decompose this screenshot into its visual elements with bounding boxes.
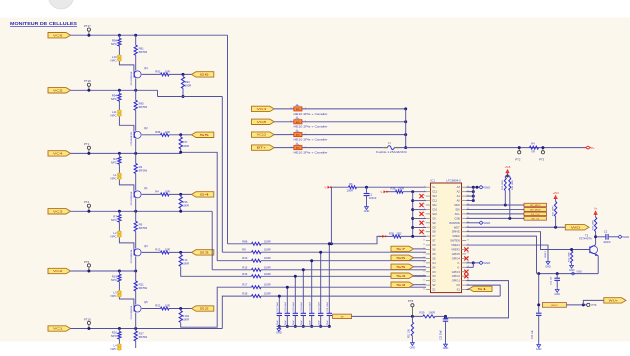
svg-text:ISP_MISO: ISP_MISO [530, 205, 541, 207]
wire from jumper [302, 147, 383, 149]
wire to output connector [169, 308, 192, 310]
capacitor C33 20nF [443, 318, 448, 320]
wire from jumper [302, 108, 406, 110]
wire to base [119, 238, 133, 250]
svg-text:STS25DNF30L: STS25DNF30L [131, 70, 133, 85]
wire to jumper J5 [274, 134, 294, 136]
svg-text:C31 1uF: C31 1uF [551, 276, 553, 285]
svg-text:ISP_MOSI: ISP_MOSI [530, 210, 541, 212]
svg-text:S6: S6 [396, 256, 407, 260]
svg-text:20nF: 20nF [327, 320, 329, 326]
svg-text:R22: R22 [155, 304, 161, 308]
svg-text:ADD: ADD [296, 108, 301, 111]
wire ISOMOD to ground flag [466, 222, 478, 224]
svg-text:GND: GND [545, 266, 551, 269]
svg-text:6: 6 [424, 208, 425, 210]
svg-text:R34 100R: R34 100R [512, 180, 514, 190]
wire V+ node [331, 186, 348, 188]
svg-text:PT2: PT2 [515, 157, 521, 161]
svg-text:Q5: Q5 [144, 300, 148, 304]
connector VC4 (cell tap input) [48, 151, 71, 156]
svg-text:10R: 10R [165, 304, 170, 308]
capacitor C23 20nF [311, 312, 313, 315]
svg-text:NPC: NPC [111, 97, 117, 101]
wire cap stub 2 [320, 252, 322, 312]
wire GPIO1 loop to C33 node [446, 281, 509, 318]
ground below R25 [571, 263, 573, 265]
svg-text:S10: S10 [432, 212, 437, 216]
svg-text:R4: R4 [155, 190, 159, 194]
wire cap stub 5 [294, 276, 296, 312]
resistor R92 10R [161, 73, 170, 76]
wire SDO line [466, 204, 524, 206]
svg-text:C1: C1 [369, 192, 373, 196]
test point PT1 [87, 146, 90, 149]
svg-text:STS25DNF30L: STS25DNF30L [131, 248, 133, 263]
wire C11 stub [413, 200, 426, 202]
svg-text:VC5: VC5 [53, 88, 64, 92]
svg-text:FZT449TA: FZT449TA [579, 237, 592, 241]
wire row VC1 [71, 328, 223, 330]
resistor R3 5R/5W on rail [135, 153, 137, 163]
svg-text:18: 18 [423, 262, 425, 264]
resistor R36 100R [595, 216, 597, 217]
svg-text:C7: C7 [432, 234, 436, 238]
svg-text:GND: GND [623, 235, 629, 239]
wire from jumper [302, 134, 406, 136]
svg-text:VC2: VC2 [53, 269, 64, 273]
svg-text:4: 4 [424, 199, 425, 201]
wire fuse to P+ [399, 147, 586, 149]
svg-text:PT1: PT1 [84, 142, 90, 146]
capacitor C26 20nF [286, 312, 288, 315]
wire C10 stub [413, 209, 426, 211]
svg-text:PT17: PT17 [84, 24, 91, 28]
svg-text:GPIO2: GPIO2 [452, 274, 461, 278]
resistor R34 100R pullup [509, 176, 511, 178]
wire div1 to bus [158, 96, 223, 98]
svg-text:S9: S9 [432, 221, 436, 225]
inductor L3 NPC [118, 291, 122, 295]
wire VREG pin to rail [466, 236, 536, 273]
svg-text:36: 36 [467, 239, 469, 241]
net label IW [333, 314, 352, 319]
wire to jumper J4 [274, 121, 294, 123]
resistor R4 10R [161, 193, 170, 196]
svg-text:100R: 100R [264, 272, 271, 276]
svg-text:ISP_CS: ISP_CS [531, 218, 539, 220]
svg-text:C2: C2 [604, 230, 608, 234]
capacitor C31 1uF [556, 272, 559, 275]
resistor R4 0R [530, 146, 539, 149]
wire to jumper J3 [274, 108, 294, 110]
svg-text:T3: T3 [585, 233, 589, 237]
resistor R15 100R [212, 269, 251, 271]
svg-text:VC4: VC4 [53, 152, 64, 156]
net label WKUP [542, 303, 566, 308]
power flag V- feeding R38 [384, 190, 387, 193]
capacitor C25 20nF [294, 312, 296, 315]
junction node row 1 [87, 34, 90, 37]
wire row VC5 [71, 89, 158, 91]
svg-text:20nF: 20nF [293, 320, 295, 326]
connector WD arrow [565, 225, 589, 230]
svg-text:GND: GND [484, 221, 490, 225]
no-connect X marks on right pins [464, 247, 468, 251]
svg-text:100R: 100R [347, 189, 353, 193]
svg-text:100R: 100R [182, 203, 189, 207]
wire row2 step [157, 90, 159, 96]
IC1 pin stubs and labels [426, 186, 431, 188]
svg-text:24: 24 [423, 288, 425, 290]
svg-text:Q1: Q1 [144, 186, 148, 190]
svg-text:MONITEUR DE CELLULES: MONITEUR DE CELLULES [10, 21, 77, 26]
wire divider2 bottom to bus [181, 149, 218, 261]
resistor R10 100R [217, 260, 251, 262]
resistor R33 100R pullup [504, 176, 506, 178]
svg-text:V-: V- [379, 235, 382, 239]
svg-text:S11: S11 [432, 203, 437, 207]
power flag V- feeding R6 [328, 186, 331, 189]
svg-text:100R: 100R [264, 239, 271, 243]
svg-text:PT4: PT4 [84, 200, 90, 204]
wire R18 row to C0 loop [261, 295, 500, 297]
svg-text:PT19: PT19 [84, 317, 91, 321]
svg-text:A0: A0 [457, 199, 461, 203]
svg-text:R31 10K: R31 10K [408, 329, 410, 338]
transistor Q5 STS25DNF30L [134, 305, 141, 312]
wire R9 row to IC [261, 251, 426, 253]
svg-text:GND: GND [577, 270, 583, 273]
svg-text:S12: S12 [432, 194, 437, 198]
connector WU+ [604, 298, 626, 303]
wire [118, 282, 120, 291]
net label ISP_CS [524, 217, 547, 221]
connector VC5 (cell tap input) [48, 88, 71, 93]
svg-text:Q3: Q3 [144, 244, 148, 248]
capacitor C27 20nF [278, 312, 280, 315]
svg-text:V-: V- [324, 185, 327, 189]
svg-text:20nF: 20nF [285, 320, 287, 326]
svg-text:100R: 100R [182, 144, 189, 148]
svg-text:C26 20nF: C26 20nF [285, 301, 287, 311]
resistor R104 100R divider [180, 309, 182, 311]
svg-text:C5: C5 [432, 252, 436, 256]
svg-text:C23 20nF: C23 20nF [310, 301, 312, 311]
wire [118, 222, 120, 231]
net label ISP_MISO [524, 203, 547, 207]
test point PT5 [87, 264, 90, 267]
wire to base [119, 297, 133, 305]
wire R16 row to IC [261, 275, 426, 277]
power flag +5x5 [506, 170, 509, 175]
svg-text:SDI: SDI [455, 207, 460, 211]
wire divider1 bottom [182, 88, 184, 96]
wire SCL line [466, 213, 524, 215]
svg-text:ISOMOD: ISOMOD [449, 221, 460, 225]
wire R10 row to IC [261, 260, 426, 262]
svg-text:R16: R16 [242, 272, 248, 276]
resistor R16 100R [250, 275, 253, 277]
partial cell 6 resistor R27 5R/5W [135, 329, 137, 332]
rail wire [135, 291, 137, 305]
svg-text:VREF1: VREF1 [545, 250, 547, 258]
svg-text:VC4: VC4 [257, 107, 268, 111]
svg-text:LTC6804-2: LTC6804-2 [447, 179, 462, 183]
test point PT9 [587, 303, 590, 306]
svg-text:10R: 10R [165, 190, 170, 194]
svg-text:GPIO1: GPIO1 [452, 279, 461, 283]
ground flag A3 [479, 186, 483, 189]
svg-text:2: 2 [424, 190, 425, 192]
svg-text:V-: V- [457, 265, 460, 269]
svg-text:GPIO5: GPIO5 [452, 252, 461, 256]
inductor L10 NPC [118, 55, 122, 59]
svg-text:HE10 2Pts + Cavalier: HE10 2Pts + Cavalier [294, 125, 328, 129]
ground below C31 [556, 287, 558, 289]
svg-text:NPC: NPC [110, 177, 116, 181]
svg-text:20nF: 20nF [277, 320, 279, 326]
junction node row 4 [87, 210, 90, 213]
svg-text:VREG: VREG [452, 234, 459, 238]
inductor L2 NPC [118, 231, 122, 235]
transistor Q2 STS25DNF30L [134, 131, 141, 138]
svg-text:WDT: WDT [454, 225, 460, 229]
svg-text:NPC: NPC [110, 234, 116, 238]
resistor R2 NPC [118, 153, 120, 156]
svg-text:5: 5 [424, 204, 425, 206]
input connector S3 [391, 282, 414, 287]
resistor R93 100R divider [182, 74, 184, 76]
wire C12-C8 vertical tie [412, 192, 414, 237]
svg-text:NPC: NPC [111, 334, 117, 338]
partial cell 6 inductor L4 NPC [118, 339, 120, 344]
resistor R17 100R [250, 286, 253, 288]
svg-text:8: 8 [424, 217, 425, 219]
svg-text:S7: S7 [396, 247, 407, 251]
wire R88 row to C7 with R30 [261, 236, 388, 243]
svg-text:R38: R38 [391, 187, 396, 191]
connector VC12 [252, 132, 275, 137]
svg-text:R30: R30 [389, 231, 394, 235]
svg-text:GND: GND [554, 293, 560, 296]
svg-text:16: 16 [423, 253, 425, 255]
test point PT2 [518, 146, 521, 149]
svg-text:Q4: Q4 [144, 66, 148, 70]
svg-text:S1: S1 [477, 287, 488, 291]
svg-text:WKUP: WKUP [551, 305, 558, 307]
svg-text:PT5: PT5 [84, 260, 90, 264]
svg-text:A3: A3 [457, 185, 461, 189]
svg-text:S5: S5 [199, 133, 210, 137]
test point PT17 [87, 28, 90, 31]
svg-text:VC3: VC3 [53, 209, 64, 213]
svg-text:GND: GND [536, 348, 542, 351]
svg-text:5R/5W: 5R/5W [139, 226, 148, 230]
resistor R6 100R [349, 186, 357, 189]
svg-text:A1: A1 [457, 194, 461, 198]
svg-text:GND: GND [443, 347, 449, 350]
wire WKUP to PT9 [567, 304, 587, 306]
svg-text:10R: 10R [165, 70, 170, 74]
wire divider4 bottom to R16 row [181, 267, 251, 276]
svg-text:S7: S7 [432, 239, 436, 243]
svg-text:PT8: PT8 [408, 299, 414, 303]
test point PT18 [87, 83, 90, 86]
svg-text:5R/5W: 5R/5W [139, 335, 148, 339]
svg-text:R98: R98 [155, 130, 161, 134]
svg-text:NPC: NPC [111, 218, 117, 222]
rail wire [135, 55, 137, 70]
wire cap stub 4 [302, 270, 304, 313]
test point PT3 [541, 146, 544, 149]
svg-text:5R/5W: 5R/5W [139, 286, 148, 290]
resistor R19 NPC [118, 271, 120, 274]
svg-text:2R2: 2R2 [397, 231, 402, 235]
svg-text:NPC: NPC [110, 347, 116, 351]
svg-text:C33 20nF: C33 20nF [441, 329, 443, 340]
capacitor C22 20nF [320, 312, 322, 315]
svg-text:10: 10 [423, 226, 425, 228]
wire to output connector [169, 134, 192, 136]
wire SDI line [466, 208, 524, 210]
emitter output wire [142, 308, 161, 310]
resistor R94 NPC [118, 90, 120, 93]
svg-text:R33 100R: R33 100R [502, 180, 504, 190]
wire divider5 bottom to R17 row [181, 287, 251, 327]
svg-text:VREF1: VREF1 [451, 243, 460, 247]
svg-text:R6: R6 [349, 182, 353, 186]
svg-text:R36 100R: R36 100R [593, 220, 595, 230]
resistor R9 5R/5W on rail [135, 211, 137, 221]
inductor L11 NPC [118, 110, 122, 114]
test point PT8 [411, 304, 414, 307]
wire [118, 164, 120, 173]
svg-text:13: 13 [423, 239, 425, 241]
resistor R7 NPC [118, 211, 120, 214]
svg-text:PT3: PT3 [539, 157, 545, 161]
svg-text:A2: A2 [457, 190, 461, 194]
resistor R98 10R [161, 133, 170, 136]
resistor R95 5R/5W on rail [135, 90, 137, 100]
svg-text:100nF: 100nF [369, 196, 377, 200]
ground bus under capacitors [277, 325, 330, 327]
svg-text:R10: R10 [242, 256, 248, 260]
output connector S3 [192, 250, 214, 255]
input connector S6 [391, 255, 414, 260]
wire row VC2 [71, 270, 136, 272]
svg-text:22: 22 [423, 279, 425, 281]
input connector S4 [391, 273, 414, 278]
svg-text:STS25DNF30L: STS25DNF30L [131, 305, 133, 320]
svg-text:7: 7 [424, 213, 425, 215]
svg-text:V-: V- [457, 261, 460, 265]
svg-text:V-: V- [380, 190, 383, 194]
wire to output connector [169, 193, 192, 195]
wire cap stub 7 [278, 296, 280, 313]
ground flag right of C2 [618, 235, 622, 238]
svg-text:14: 14 [423, 244, 425, 246]
svg-text:100R: 100R [264, 248, 271, 252]
wire row1 bus down [227, 35, 229, 244]
svg-text:100R: 100R [264, 292, 271, 296]
resistor R91 5R/5W on rail [135, 35, 137, 45]
svg-text:V+: V+ [594, 207, 598, 211]
rail wire [135, 110, 137, 131]
ground flag on emitter line [571, 272, 575, 275]
output connector S1 [469, 286, 492, 291]
svg-text:GND: GND [276, 332, 282, 335]
capacitor C24 20nF [302, 312, 304, 315]
wire R29 to C33 node [435, 315, 446, 317]
svg-text:S4: S4 [396, 274, 407, 278]
svg-text:100R: 100R [264, 256, 271, 260]
svg-text:100R: 100R [182, 261, 189, 265]
net label ISP_MOSI [524, 208, 547, 212]
svg-text:HE10 2Pts + Cavalier: HE10 2Pts + Cavalier [294, 112, 328, 116]
no-connect X marks on left S pins [419, 194, 423, 198]
svg-text:20nF: 20nF [310, 320, 312, 326]
svg-text:R9: R9 [242, 248, 246, 252]
svg-text:10R: 10R [165, 248, 170, 252]
capacitor C2 100nF [596, 236, 606, 238]
resistor R25 100R [570, 251, 572, 263]
connector VC4 [252, 106, 275, 111]
svg-text:S2: S2 [199, 307, 210, 311]
svg-text:GND: GND [484, 261, 490, 265]
svg-text:PT9: PT9 [592, 303, 597, 307]
svg-text:C8: C8 [432, 225, 436, 229]
svg-text:VC6: VC6 [53, 33, 64, 37]
emitter output wire [142, 251, 161, 253]
wire to output connector [169, 251, 192, 253]
ground flag ISOMOD [479, 221, 483, 224]
svg-text:C27 20nF: C27 20nF [277, 301, 279, 311]
svg-text:100R: 100R [264, 283, 271, 287]
svg-text:S4: S4 [432, 265, 436, 269]
wire jumper bus [405, 109, 407, 148]
wire C8 stub [413, 227, 426, 229]
connector VC8 [252, 119, 275, 124]
wire row VC6 [71, 34, 228, 36]
svg-text:5R/5W: 5R/5W [139, 168, 148, 172]
resistor R31 10K [411, 322, 413, 336]
svg-text:VC8: VC8 [257, 120, 268, 124]
resistor R21 5R/5W on rail [135, 271, 137, 281]
wire VREG rail down to WKUP node [538, 274, 540, 313]
svg-text:Fusible 1.25A/2kVDC: Fusible 1.25A/2kVDC [376, 150, 407, 154]
output connector S2 [192, 306, 214, 311]
partial cell 6 resistor R20 NPC [118, 329, 120, 332]
svg-text:C30 1uF: C30 1uF [532, 330, 534, 339]
svg-text:NPC: NPC [111, 160, 117, 164]
svg-text:100R: 100R [185, 83, 192, 87]
svg-text:NPC: NPC [110, 58, 116, 62]
ground below R31 [411, 336, 413, 341]
svg-text:P+: P+ [591, 146, 595, 150]
svg-text:10R: 10R [165, 130, 170, 134]
connector VC3 (cell tap input) [48, 209, 71, 214]
transistor Q1 STS25DNF30L [134, 191, 141, 198]
ground below C30 [538, 343, 540, 345]
fuse F1 Fusible 1.25A/2kVDC [383, 147, 387, 149]
svg-text:C12: C12 [432, 190, 437, 194]
svg-text:R18: R18 [242, 292, 248, 296]
resistor R32 100R [555, 200, 557, 201]
output connector S5 [192, 132, 214, 137]
svg-text:HE10 2Pts + Cavalier: HE10 2Pts + Cavalier [294, 151, 328, 155]
svg-text:3: 3 [424, 195, 425, 197]
